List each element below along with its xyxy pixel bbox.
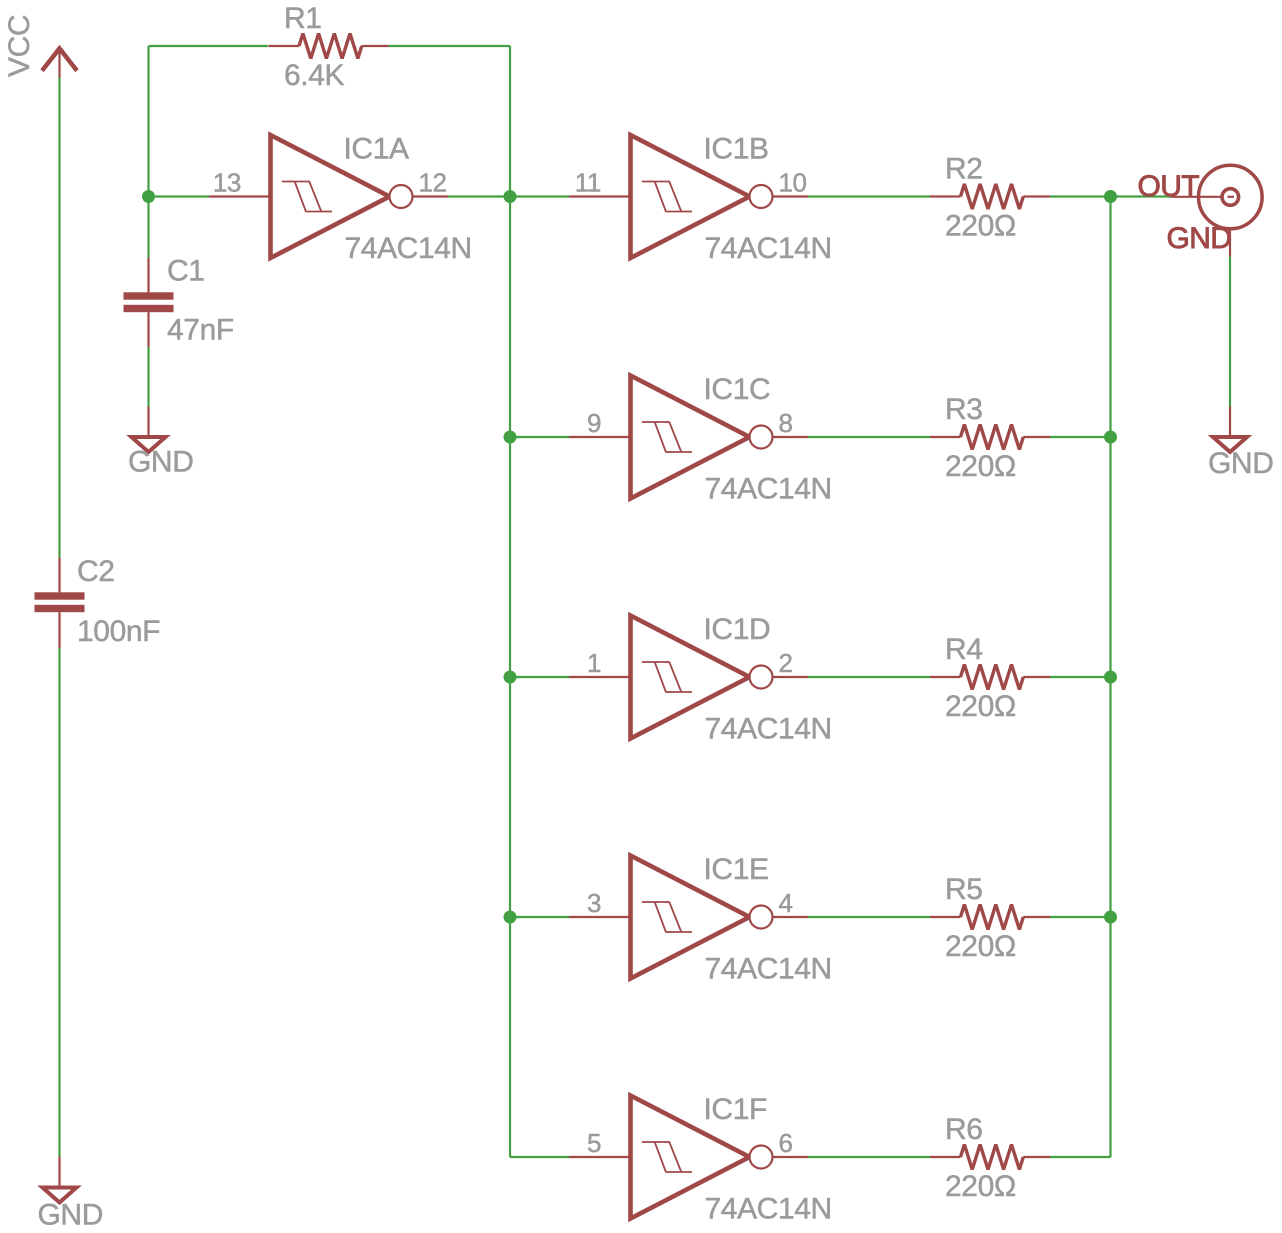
- svg-text:IC1C: IC1C: [704, 373, 771, 406]
- resistor R3 (220Ω): [930, 393, 1050, 483]
- R3 left lead: [930, 436, 961, 438]
- C2 bottom plate: [35, 605, 85, 612]
- wire bus to IC1D input: [510, 676, 569, 678]
- svg-text:R6: R6: [945, 1113, 983, 1146]
- Schmitt inverter IC1A (74AC14N): [209, 133, 472, 266]
- capacitor C1 (47nF): [124, 255, 234, 347]
- R1 right lead: [362, 45, 389, 47]
- connector GND pin lead: [1229, 228, 1231, 257]
- IC1E input pin 3: [569, 916, 631, 918]
- IC1A output pin 12: [413, 195, 449, 197]
- junction node A: [142, 190, 155, 203]
- svg-text:10: 10: [779, 168, 807, 198]
- svg-text:74AC14N: 74AC14N: [705, 1193, 832, 1226]
- IC1B triangle body: [631, 135, 750, 258]
- ground symbol bottom-left: [38, 1157, 103, 1232]
- svg-text:8: 8: [779, 408, 793, 438]
- ground pin: [147, 407, 149, 438]
- R6 left lead: [930, 1156, 961, 1158]
- R4 left lead: [930, 676, 961, 678]
- IC1B output pin 10: [773, 195, 809, 197]
- svg-text:5: 5: [587, 1128, 601, 1158]
- C2 top plate: [35, 592, 85, 599]
- junction node B bus: [504, 190, 517, 203]
- svg-text:3: 3: [587, 888, 601, 918]
- IC1D triangle body: [631, 616, 750, 739]
- Schmitt inverter IC1D (74AC14N): [569, 613, 832, 746]
- svg-text:R2: R2: [945, 153, 983, 186]
- svg-text:11: 11: [575, 168, 601, 198]
- junction node B bus: [504, 431, 517, 444]
- connector OUT pin lead: [1171, 196, 1223, 198]
- svg-text:C1: C1: [167, 255, 205, 288]
- svg-text:GND: GND: [128, 446, 193, 479]
- wire node B vertical bus: [509, 46, 511, 1157]
- svg-text:9: 9: [587, 408, 601, 438]
- svg-text:220Ω: 220Ω: [945, 690, 1016, 723]
- wire node A to IC1A input: [149, 195, 210, 197]
- IC1E output pin 4: [773, 916, 809, 918]
- svg-text:R4: R4: [945, 633, 983, 666]
- IC1F input pin 5: [569, 1156, 631, 1158]
- connector center pin dash: [1228, 196, 1235, 198]
- resistor R5 (220Ω): [930, 873, 1050, 963]
- IC1C input pin 9: [569, 436, 631, 438]
- capacitor C2 (100nF): [35, 555, 161, 648]
- connector outer shield circle: [1199, 165, 1263, 229]
- VCC supply symbol: [3, 15, 79, 78]
- IC1C output pin 8: [773, 436, 809, 438]
- ground pin: [1229, 407, 1231, 438]
- wire R1 to node B horizontal: [389, 45, 511, 47]
- svg-text:IC1D: IC1D: [704, 613, 771, 646]
- IC1F hysteresis symbol: [642, 1142, 692, 1172]
- resistor R6 (220Ω): [930, 1113, 1050, 1203]
- ground triangle symbol: [132, 437, 166, 452]
- wire R4 to output bus: [1050, 676, 1111, 678]
- R5 left lead: [930, 916, 961, 918]
- capacitor C1 pin bottom: [147, 312, 149, 347]
- IC1C hysteresis symbol: [642, 422, 692, 452]
- svg-text:13: 13: [213, 168, 241, 198]
- IC1B hysteresis symbol: [642, 182, 692, 212]
- junction output bus: [1104, 431, 1117, 444]
- wire node A vertical (feedback left): [147, 46, 149, 258]
- capacitor C2 pin top: [58, 558, 60, 593]
- wire IC1D output to R4: [808, 676, 930, 678]
- svg-text:IC1F: IC1F: [704, 1093, 767, 1126]
- R3 zigzag body: [961, 425, 1024, 450]
- svg-text:220Ω: 220Ω: [945, 450, 1016, 483]
- ground symbol right: [1208, 407, 1273, 481]
- IC1A input pin 13: [209, 195, 271, 197]
- svg-text:2: 2: [779, 648, 793, 678]
- R1 zigzag body: [299, 34, 362, 59]
- R6 zigzag body: [961, 1145, 1024, 1170]
- wire IC1E output to R5: [808, 916, 930, 918]
- junction output bus: [1104, 911, 1117, 924]
- Schmitt inverter IC1F (74AC14N): [569, 1093, 832, 1226]
- IC1B input pin 11: [569, 195, 631, 197]
- capacitor C2 pin bottom: [58, 612, 60, 648]
- svg-text:R3: R3: [945, 393, 983, 426]
- wire connector shield to ground: [1229, 257, 1231, 407]
- C1 top plate: [124, 292, 174, 299]
- ground triangle symbol: [43, 1188, 77, 1203]
- wire GND rail lower segment: [58, 648, 60, 1157]
- resistor R1 (6.4K): [269, 2, 389, 92]
- svg-text:VCC: VCC: [3, 15, 36, 77]
- R4 zigzag body: [961, 665, 1024, 690]
- svg-text:IC1B: IC1B: [704, 133, 769, 166]
- wire R6 to output bus: [1050, 1156, 1111, 1158]
- junction output bus: [1104, 671, 1117, 684]
- IC1C triangle body: [631, 376, 750, 499]
- svg-text:4: 4: [779, 888, 793, 918]
- svg-text:GND: GND: [1167, 222, 1232, 255]
- R2 zigzag body: [961, 184, 1024, 209]
- IC1D output pin 2: [773, 676, 809, 678]
- IC1C output bubble: [750, 426, 773, 449]
- R5 right lead: [1023, 916, 1050, 918]
- IC1D output bubble: [750, 666, 773, 689]
- Schmitt inverter IC1B (74AC14N): [569, 133, 832, 266]
- svg-text:OUT: OUT: [1138, 170, 1200, 203]
- R2 left lead: [930, 195, 961, 197]
- wire VCC rail upper segment: [58, 78, 60, 558]
- svg-text:220Ω: 220Ω: [945, 210, 1016, 243]
- connector X1 (coax output): [1138, 165, 1263, 256]
- svg-text:220Ω: 220Ω: [945, 930, 1016, 963]
- C1 bottom plate: [124, 305, 174, 312]
- svg-text:12: 12: [419, 168, 447, 198]
- IC1A triangle body: [271, 135, 390, 258]
- R3 right lead: [1023, 436, 1050, 438]
- wire IC1B output to R2: [808, 195, 930, 197]
- wire bus to IC1B input: [510, 195, 569, 197]
- ground triangle symbol: [1213, 437, 1247, 452]
- IC1E triangle body: [631, 856, 750, 979]
- wire R3 to output bus: [1050, 436, 1111, 438]
- wire bus to IC1F input: [510, 1156, 569, 1158]
- junction node B bus: [504, 911, 517, 924]
- svg-text:GND: GND: [1208, 447, 1273, 480]
- svg-text:74AC14N: 74AC14N: [705, 232, 832, 265]
- svg-text:6.4K: 6.4K: [284, 59, 345, 92]
- resistor R2 (220Ω): [930, 153, 1050, 243]
- svg-text:100nF: 100nF: [77, 615, 160, 648]
- svg-text:IC1E: IC1E: [704, 853, 769, 886]
- ground pin: [58, 1157, 60, 1188]
- svg-text:74AC14N: 74AC14N: [705, 713, 832, 746]
- svg-text:74AC14N: 74AC14N: [345, 232, 472, 265]
- VCC pin: [58, 48, 60, 78]
- connector center pin circle: [1222, 189, 1239, 206]
- wire R2 to output bus: [1050, 195, 1111, 197]
- svg-text:6: 6: [779, 1128, 793, 1158]
- wire IC1F output to R6: [808, 1156, 930, 1158]
- R2 right lead: [1023, 195, 1050, 197]
- svg-text:74AC14N: 74AC14N: [705, 473, 832, 506]
- wire R5 to output bus: [1050, 916, 1111, 918]
- svg-text:1: 1: [587, 648, 601, 678]
- Schmitt inverter IC1C (74AC14N): [569, 373, 832, 506]
- svg-text:R5: R5: [945, 873, 983, 906]
- svg-text:IC1A: IC1A: [344, 133, 409, 166]
- IC1B output bubble: [750, 185, 773, 208]
- wire IC1A output to node B: [448, 195, 510, 197]
- wire output bus vertical: [1109, 197, 1111, 1158]
- resistor R4 (220Ω): [930, 633, 1050, 723]
- IC1A output bubble: [390, 185, 413, 208]
- Schmitt inverter IC1E (74AC14N): [569, 853, 832, 986]
- R4 right lead: [1023, 676, 1050, 678]
- wire IC1C output to R3: [808, 436, 930, 438]
- svg-text:GND: GND: [38, 1199, 103, 1232]
- IC1E output bubble: [750, 906, 773, 929]
- R1 left lead: [269, 45, 300, 47]
- capacitor C1 pin top: [147, 258, 149, 293]
- svg-text:47nF: 47nF: [167, 314, 234, 347]
- wire C1 to ground: [147, 347, 149, 407]
- svg-text:R1: R1: [284, 2, 322, 35]
- IC1D input pin 1: [569, 676, 631, 678]
- R5 zigzag body: [961, 905, 1024, 930]
- wire bus to IC1E input: [510, 916, 569, 918]
- IC1A hysteresis symbol: [282, 182, 332, 212]
- wire node A to R1: [149, 45, 269, 47]
- wire output bus to connector OUT: [1111, 195, 1171, 197]
- IC1F triangle body: [631, 1096, 750, 1219]
- IC1F output pin 6: [773, 1156, 809, 1158]
- wire bus to IC1C input: [510, 436, 569, 438]
- junction node B bus: [504, 671, 517, 684]
- junction output bus: [1104, 190, 1117, 203]
- IC1F output bubble: [750, 1146, 773, 1169]
- IC1D hysteresis symbol: [642, 662, 692, 692]
- svg-text:74AC14N: 74AC14N: [705, 953, 832, 986]
- svg-text:C2: C2: [77, 555, 115, 588]
- R6 right lead: [1023, 1156, 1050, 1158]
- IC1E hysteresis symbol: [642, 902, 692, 932]
- svg-text:220Ω: 220Ω: [945, 1170, 1016, 1203]
- ground symbol under C1: [128, 407, 193, 479]
